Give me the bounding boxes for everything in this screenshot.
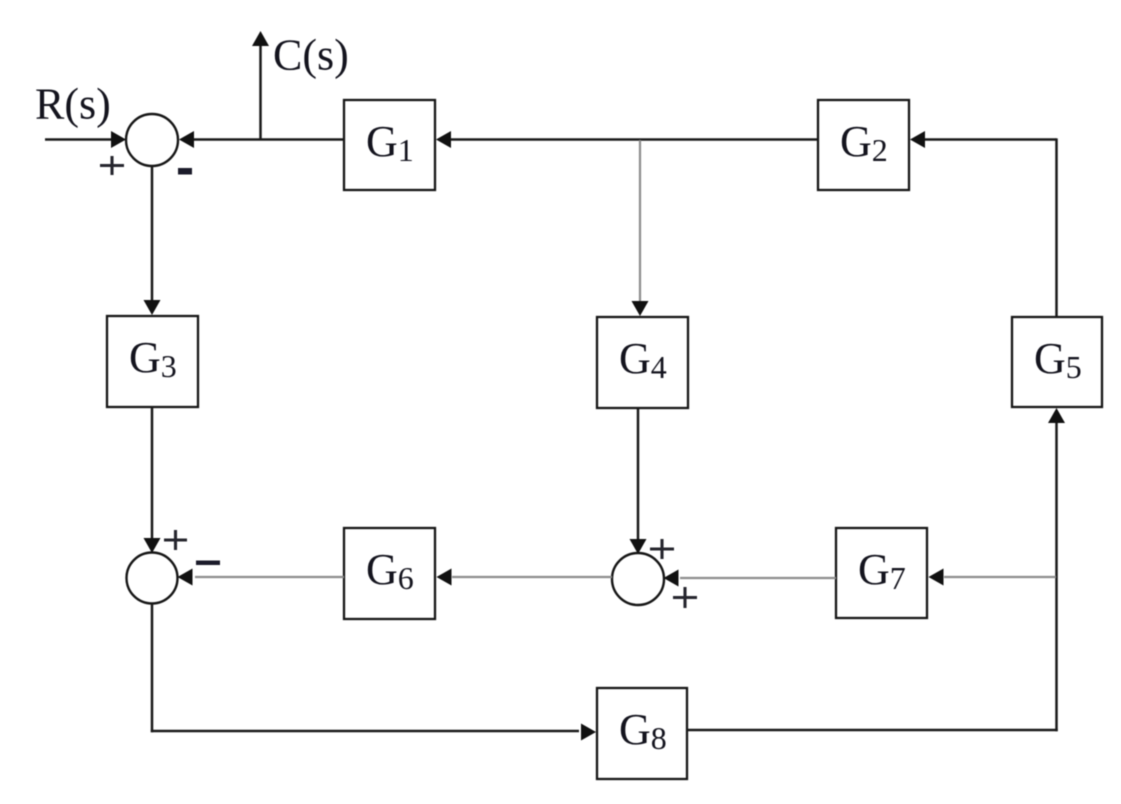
- svg-text:R(s): R(s): [35, 80, 111, 129]
- svg-text:C(s): C(s): [273, 31, 349, 80]
